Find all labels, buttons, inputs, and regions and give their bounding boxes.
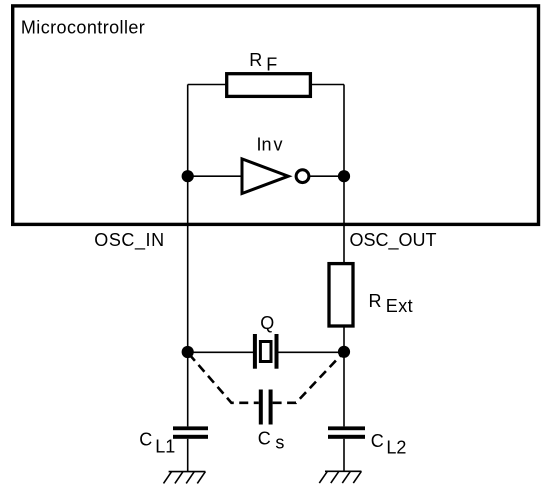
wire inverter input	[188, 175, 241, 177]
wire OSC_IN node to capacitor CL1	[187, 352, 189, 426]
svg-text:Q: Q	[260, 313, 274, 333]
svg-text:C: C	[371, 431, 384, 451]
wire OSC_OUT vertical net (node down to resistor RExt)	[343, 176, 345, 263]
microcontroller box	[13, 6, 539, 225]
label Cs	[258, 428, 285, 452]
capacitor CL1	[173, 426, 208, 438]
svg-text:Microcontroller: Microcontroller	[21, 18, 145, 38]
wire capacitor CL1 to ground	[187, 439, 189, 472]
svg-text:F: F	[266, 55, 277, 75]
inverter Inv (triangle and bubble)	[242, 159, 309, 194]
svg-text:C: C	[139, 429, 152, 449]
wire inverter output	[310, 175, 345, 177]
svg-text:L1: L1	[155, 437, 175, 457]
wire OSC_OUT node to capacitor CL2	[343, 352, 345, 427]
capacitor Cs	[259, 390, 273, 425]
ground right	[319, 471, 361, 483]
dashed wire left node to capacitor Cs	[189, 354, 259, 403]
svg-text:Inv: Inv	[257, 135, 283, 155]
label CL1	[139, 429, 175, 456]
resistor RExt body	[329, 264, 353, 326]
wire crystal right lead	[279, 351, 345, 353]
wire capacitor CL2 to ground	[343, 439, 345, 472]
svg-text:s: s	[275, 433, 284, 453]
wire OSC_IN vertical net (inverter node down to crystal node)	[187, 176, 189, 352]
svg-text:R: R	[369, 291, 382, 311]
wire OSC_OUT vertical net (RF right wire down to inverter output node)	[343, 85, 345, 177]
label RExt	[369, 291, 414, 316]
label RF	[249, 50, 277, 75]
wire OSC_IN vertical net (top segment to inverter input node)	[187, 85, 189, 177]
label CL2	[371, 431, 407, 458]
dashed wire capacitor Cs to right node	[273, 353, 343, 403]
wire from OSC_IN net to resistor RF left terminal	[188, 84, 226, 86]
wire from resistor RF right terminal to OSC_OUT net	[311, 84, 344, 86]
svg-text:OSC_OUT: OSC_OUT	[350, 230, 437, 251]
node junction OSC_IN at inverter input	[182, 170, 194, 182]
ground left	[164, 472, 206, 484]
resistor RF body	[227, 74, 311, 97]
wire crystal left lead	[188, 351, 253, 353]
svg-text:C: C	[258, 428, 271, 448]
wire RExt bottom to crystal right node	[343, 327, 345, 353]
node junction crystal left	[182, 346, 194, 358]
svg-text:Ext: Ext	[386, 296, 413, 316]
capacitor CL2	[328, 426, 365, 438]
crystal Q	[253, 334, 279, 369]
svg-text:R: R	[249, 50, 262, 70]
node junction crystal right	[338, 346, 350, 358]
svg-text:L2: L2	[386, 438, 406, 458]
svg-text:OSC_IN: OSC_IN	[94, 230, 164, 251]
node junction OSC_OUT at inverter output	[338, 170, 350, 182]
